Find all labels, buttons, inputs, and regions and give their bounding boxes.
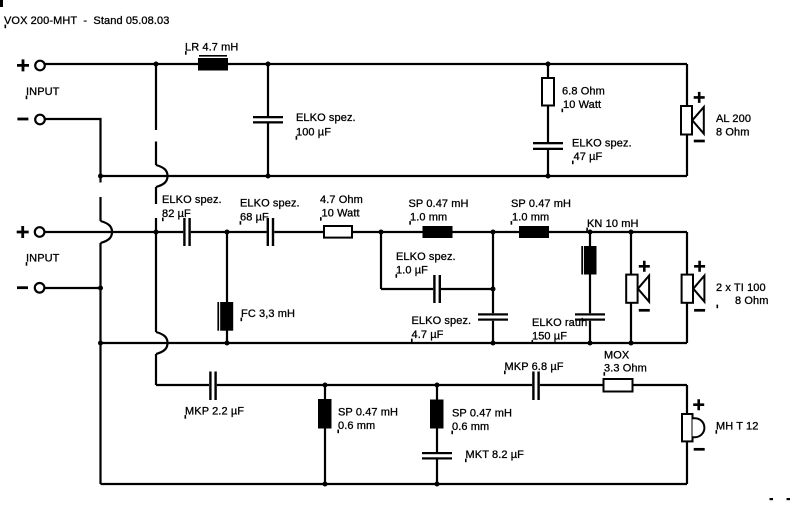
svg-text:KN 10 mH: KN 10 mH: [587, 218, 639, 230]
wire SP coil branch1 x=325: [324, 385, 326, 484]
wire section2 vertical to tweeter section x=156: [155, 232, 157, 385]
svg-text:VOX 200-MHT - Stand 05.08.03: VOX 200-MHT - Stand 05.08.03: [4, 15, 169, 27]
svg-text:6.8 Ohm: 6.8 Ohm: [562, 86, 605, 98]
terminal plus input2: [17, 226, 29, 238]
label anchor tick 82uF: [162, 218, 164, 222]
wire section2 input minus lead y=288: [45, 287, 101, 289]
svg-text:SP 0.47 mH: SP 0.47 mH: [511, 198, 571, 210]
label anchor tick 8 Ohm TI: [717, 305, 719, 309]
label anchor tick 3.3 Ohm: [604, 372, 606, 376]
wire right rail section2 x=687: [686, 232, 688, 343]
svg-text:SP 0.47 mH: SP 0.47 mH: [338, 407, 398, 419]
wire section3 top rail y=385: [156, 384, 687, 386]
label anchor tick LR: [185, 51, 187, 55]
node junction mid rail / FC coil: [225, 230, 230, 235]
speaker MHT 12 tweeter: [682, 414, 704, 441]
resistor MOX 3.3 Ohm body: [604, 379, 633, 392]
label anchor tick MKP 6.8: [504, 371, 506, 375]
polarity minus TI 100 right: [694, 309, 705, 312]
terminal circle input2 plus: [35, 227, 45, 237]
svg-text:INPUT: INPUT: [26, 253, 60, 265]
polarity minus TI 100 left: [639, 309, 650, 312]
capacitor ELKO spez. 1.0uF plates: [433, 275, 435, 303]
inductor FC 3,3 mH core bar: [217, 302, 219, 331]
svg-text:FC 3,3 mH: FC 3,3 mH: [241, 308, 295, 320]
speaker TI 100 (right): [682, 275, 705, 303]
inductor SP 0.47mH 1.0mm body (right): [519, 226, 549, 238]
terminal circle input1 plus: [35, 61, 45, 71]
polarity minus MHT 12: [694, 448, 705, 451]
wire top positive rail y=64: [45, 63, 687, 65]
label anchor tick 0.6mm right: [451, 431, 453, 435]
capacitor ELKO spez. 47uF plates: [533, 142, 563, 144]
speaker TI 100 (left): [626, 275, 649, 303]
node junction rail3 bottom / SP coil2: [435, 482, 440, 487]
terminal circle input2 minus: [35, 283, 45, 293]
label anchor tick 1.0uF: [396, 274, 398, 278]
wire section3 bottom rail y=484: [101, 483, 688, 485]
inductor SP 0.47mH 0.6mm body (left): [318, 399, 332, 429]
stray dot bottom right 2: [787, 498, 791, 500]
wire 6.8ohm/47uF branch x=548: [547, 64, 549, 176]
label anchor tick 10 Watt 1: [562, 109, 564, 113]
svg-text:0.6 mm: 0.6 mm: [452, 421, 489, 433]
svg-text:0.6 mm: 0.6 mm: [338, 420, 375, 432]
svg-text:8 Ohm: 8 Ohm: [735, 295, 769, 307]
inductor KN 10 mH body: [584, 246, 597, 275]
wire TI100 speaker1 branch x=631: [630, 232, 632, 343]
resistor 4.7 Ohm body: [324, 226, 352, 238]
wire section1 bottom rail y=176: [101, 175, 688, 177]
terminal circle input1 minus: [35, 115, 45, 125]
svg-text:MKP 6.8 µF: MKP 6.8 µF: [505, 361, 564, 373]
svg-text:AL 200: AL 200: [716, 113, 751, 125]
label anchor tick title: [5, 25, 7, 29]
node junction mid rail / 4.7uF branch: [491, 230, 496, 235]
inductor KN 10 mH core bar: [581, 246, 583, 275]
polarity plus TI 100 right: [694, 261, 705, 272]
svg-text:68 µF: 68 µF: [240, 212, 269, 224]
svg-text:10 Watt: 10 Watt: [563, 99, 601, 111]
polarity plus AL 200: [694, 92, 705, 103]
svg-text:2 x TI 100: 2 x TI 100: [716, 282, 766, 294]
svg-text:10 Watt: 10 Watt: [322, 208, 360, 220]
label anchor tick 1.0mm left: [409, 221, 411, 225]
speaker AL 200: [681, 106, 704, 135]
capacitor ELKO spez. 4.7uF plates: [478, 313, 508, 315]
svg-text:MOX: MOX: [604, 350, 630, 362]
wire hop over rail2 at x=156: [156, 332, 168, 354]
label anchor tick KN: [586, 228, 588, 232]
wire hop over rail1 at x=156: [156, 165, 168, 187]
svg-text:ELKO spez.: ELKO spez.: [240, 198, 300, 210]
svg-text:1.0 mm: 1.0 mm: [410, 212, 447, 224]
capacitor ELKO spez. 82uF plates: [183, 218, 185, 246]
node junction mid rail / 1.0uF branch: [379, 230, 384, 235]
svg-text:ELKO spez.: ELKO spez.: [162, 194, 222, 206]
label anchor tick 100uF: [296, 136, 298, 140]
svg-text:ELKO spez.: ELKO spez.: [412, 315, 472, 327]
wire right rail section3 x=687: [686, 385, 688, 484]
node junction rail1 / 47uF: [546, 174, 551, 179]
stray dot bottom right 1: [770, 498, 774, 500]
label anchor tick 0.6mm left: [337, 430, 339, 434]
inductor LR 4.7 mH body: [198, 58, 228, 71]
node junction rail3 top / SP coil2: [435, 383, 440, 388]
node junction input2 minus / left feed: [98, 286, 103, 291]
polarity plus MHT 12: [693, 399, 704, 410]
terminal minus input2: [17, 286, 28, 289]
polarity plus TI 100 left: [639, 261, 650, 272]
terminal minus input1: [17, 118, 28, 121]
inductor SP 0.47mH 0.6mm body (right): [430, 400, 444, 429]
node junction rail2 / left feed: [98, 341, 103, 346]
svg-text:SP 0.47 mH: SP 0.47 mH: [452, 408, 512, 420]
node junction rail1 / 100uF: [266, 174, 271, 179]
label anchor tick INPUT1: [26, 96, 28, 100]
label anchor tick 1.0mm right: [511, 221, 513, 225]
capacitor MKT 8.2uF plates: [422, 452, 452, 454]
polarity minus AL 200: [694, 140, 705, 143]
svg-text:4.7 µF: 4.7 µF: [412, 329, 444, 341]
svg-text:MKT 8.2 µF: MKT 8.2 µF: [466, 449, 525, 461]
svg-text:ELKO rauh: ELKO rauh: [532, 317, 587, 329]
label anchor tick FC: [241, 318, 243, 322]
label anchor tick 10 Watt 2: [320, 217, 322, 221]
wire 4.7uF branch x=493: [492, 232, 494, 343]
svg-text:INPUT: INPUT: [26, 86, 60, 98]
svg-text:ELKO spez.: ELKO spez.: [572, 138, 632, 150]
capacitor ELKO spez. 100uF plates: [253, 116, 283, 118]
node junction rail3 top / SP coil1: [323, 383, 328, 388]
node junction rail2 / TI100 left: [629, 341, 634, 346]
svg-text:3.3 Ohm: 3.3 Ohm: [604, 363, 647, 375]
capacitor MKP 6.8uF plates: [532, 372, 534, 401]
node junction top rail / 6.8 Ohm: [546, 62, 551, 67]
wire top input minus lead: [45, 119, 101, 221]
svg-text:47 µF: 47 µF: [574, 151, 603, 163]
inductor LR 4.7 mH core bar: [199, 55, 227, 57]
svg-text:ELKO spez.: ELKO spez.: [396, 251, 456, 263]
node junction mid rail / section feed: [154, 230, 159, 235]
svg-text:1.0 mm: 1.0 mm: [512, 212, 549, 224]
wire hop over mid positive rail at x=100.5: [101, 221, 113, 243]
svg-text:4.7 Ohm: 4.7 Ohm: [320, 194, 363, 206]
node junction rail2 / FC coil: [225, 341, 230, 346]
node junction rail2 / 150uF: [588, 341, 593, 346]
capacitor ELKO rauh 150uF plates: [575, 313, 605, 315]
svg-text:LR 4.7 mH: LR 4.7 mH: [185, 42, 238, 54]
terminal plus input1: [17, 59, 29, 71]
svg-text:ELKO spez.: ELKO spez.: [296, 112, 356, 124]
svg-text:100 µF: 100 µF: [296, 127, 331, 139]
wire left feed below crossover hop down to minus bus: [99, 243, 101, 484]
svg-text:1.0 µF: 1.0 µF: [396, 265, 428, 277]
node junction 1.0uF / 4.7uF branch: [491, 287, 496, 292]
wire section1 vertical to midband junction x=156: [155, 64, 157, 232]
inductor FC 3,3 mH body: [220, 302, 233, 331]
label anchor tick 4.7uF: [411, 339, 413, 343]
resistor 6.8 Ohm body: [542, 78, 554, 106]
label anchor tick 150uF: [532, 340, 534, 344]
label anchor tick MHT: [716, 430, 718, 434]
wire elko 100uF branch x=268: [267, 64, 269, 176]
svg-text:8 Ohm: 8 Ohm: [716, 127, 750, 139]
wire section2 positive rail y=232: [45, 231, 687, 233]
wire 1.0uF sub-branch: [381, 232, 493, 289]
svg-text:MKP 2.2 µF: MKP 2.2 µF: [185, 406, 244, 418]
wire KN coil / 150uF branch x=590: [589, 232, 591, 343]
label anchor tick 47uF: [572, 161, 574, 165]
node junction rail3 bottom / SP coil1: [323, 482, 328, 487]
node junction mid rail / KN coil: [588, 230, 593, 235]
svg-text:SP 0.47 mH: SP 0.47 mH: [409, 198, 469, 210]
inductor SP 0.47mH 1.0mm body (left): [423, 226, 453, 238]
label anchor tick MKT: [465, 459, 467, 463]
wire section2 bottom rail y=343: [101, 342, 688, 344]
wire FC coil branch x=227: [226, 232, 228, 343]
node junction mid rail / TI100 left: [629, 230, 634, 235]
wire SP coil branch2 / MKT x=437: [436, 385, 438, 484]
node junction rail1 / left feed: [98, 174, 103, 179]
capacitor MKP 2.2uF plates: [209, 372, 211, 401]
label anchor tick INPUT2: [26, 262, 28, 266]
corner artifact top-left: [0, 0, 3, 7]
svg-text:MH T 12: MH T 12: [716, 421, 758, 433]
node junction top rail / mid feed: [154, 62, 159, 67]
svg-text:150 µF: 150 µF: [532, 331, 567, 343]
capacitor ELKO spez. 68uF plates: [267, 218, 269, 246]
node junction top rail / 100uF: [266, 62, 271, 67]
svg-text:82 µF: 82 µF: [162, 208, 191, 220]
label anchor tick MKP 2.2: [185, 415, 187, 419]
wire right rail section1 x=687: [686, 64, 688, 176]
label anchor tick 68uF: [240, 221, 242, 225]
node junction rail2 / 4.7uF: [491, 341, 496, 346]
